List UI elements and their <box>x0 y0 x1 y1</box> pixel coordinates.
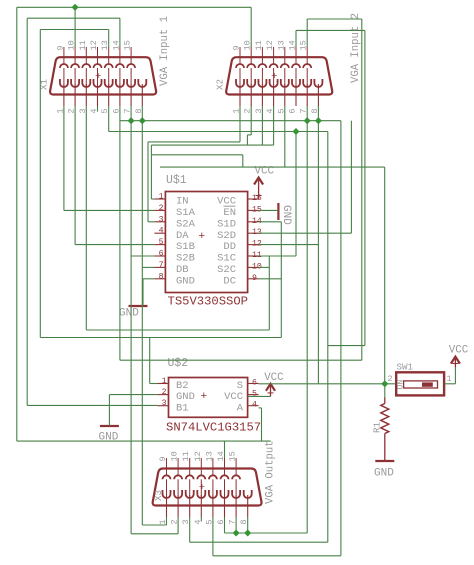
wire U$2 VCC wire <box>248 395 271 397</box>
svg-text:+: + <box>201 391 208 403</box>
X1 pin 1 <box>63 84 65 106</box>
U$1 EN overline <box>224 205 236 207</box>
wire X1 pin 2 vertical <box>74 106 76 245</box>
X2 pin 15 contact <box>303 64 311 68</box>
SW1 pin 2 wire <box>385 383 396 385</box>
wire X3 pin 6 drop <box>224 517 226 533</box>
wire net to U$1 pin 3 vertical <box>147 142 149 222</box>
U$1 pin 10 (S2C) <box>248 266 259 268</box>
svg-text:B1: B1 <box>176 402 189 414</box>
wire into U$1 pin 14 <box>259 221 282 223</box>
svg-text:+: + <box>199 482 205 494</box>
wire X2 top loop 2 horizontal <box>296 29 365 31</box>
svg-text:S2C: S2C <box>217 264 236 276</box>
X1 pin 3 contact <box>82 79 90 87</box>
wire X2 pin 4 drop <box>273 106 275 145</box>
X3 pin 8 contact <box>244 490 252 498</box>
svg-text:S1C: S1C <box>217 253 236 265</box>
svg-text:VGA Input 2: VGA Input 2 <box>350 13 362 83</box>
X3 pin 5 <box>212 495 214 517</box>
X2 pin 5 contact <box>281 79 289 87</box>
svg-text:TS5V330SSOP: TS5V330SSOP <box>168 295 248 309</box>
ground symbol below U$1 pin 8 <box>129 305 148 307</box>
svg-text:8: 8 <box>159 272 164 281</box>
svg-text:+: + <box>271 71 277 83</box>
X3 pin 10 contact <box>174 475 182 479</box>
U$1 pin 5 (S1B) <box>154 244 165 246</box>
X3 pin 1 contact <box>163 490 171 498</box>
wire into U$1 pin 1 <box>151 198 154 200</box>
wire X1 pin 3 vertical <box>85 106 87 330</box>
X2 pin 9 contact <box>236 64 244 68</box>
X1 pin 2 <box>74 84 76 106</box>
X3 pin 2 <box>177 495 179 517</box>
U$2 pin 1 (B2) <box>158 383 169 385</box>
svg-text:2: 2 <box>159 204 164 213</box>
wire X3 pin 7 drop <box>235 517 237 533</box>
X2 pin 13 contact <box>281 64 289 68</box>
U$2 pin 5 (VCC) <box>248 394 259 396</box>
wire X3 pin 5 drop <box>212 517 214 556</box>
wire mid horizontal y=360.2 <box>120 359 362 361</box>
X2 pin 6 contact <box>292 79 300 87</box>
X2 pin 11 <box>261 47 263 64</box>
svg-text:VGA Output: VGA Output <box>265 440 277 504</box>
wire bus L2 <box>109 131 328 133</box>
svg-text:10: 10 <box>170 451 180 461</box>
U$2 pin 4 (A) <box>248 405 259 407</box>
wire to U$2 pin 3 <box>27 404 157 406</box>
U$1 pin 8 (GND) <box>154 278 165 280</box>
wire U$1 pin 13 feed vertical <box>350 121 352 234</box>
X3 pin 9 <box>166 458 168 475</box>
svg-text:6: 6 <box>159 250 164 259</box>
X3 pin 14 <box>224 458 226 475</box>
svg-text:13: 13 <box>276 40 286 50</box>
X2 pin 8 <box>317 84 319 106</box>
X2 pin 4 <box>273 84 275 106</box>
wire into U$1 pin 13 <box>259 232 352 234</box>
ground symbol on U$2 pin 3 net <box>100 425 119 427</box>
X1 pin 10 contact <box>71 64 79 68</box>
X1 pin 14 <box>119 47 121 64</box>
X1 pin 10 <box>74 47 76 64</box>
wire X1 pin 4 stub <box>97 106 99 112</box>
wire VCC bus to SW1 <box>160 166 385 168</box>
junction X1 pin 7 on L1 <box>128 117 135 124</box>
U$2 pin 3 (B1) <box>158 405 169 407</box>
svg-text:11: 11 <box>78 40 88 50</box>
svg-text:15: 15 <box>123 40 133 50</box>
wire X3 pin 1 riser <box>166 517 168 525</box>
svg-text:IN: IN <box>176 196 189 208</box>
X2 pin 10 <box>250 47 252 64</box>
svg-text:12: 12 <box>89 40 99 50</box>
svg-text:1: 1 <box>162 377 167 386</box>
wire bus into U$1 pin 1 <box>151 144 273 146</box>
wire bottom bus to X3 pin 5 <box>213 555 341 557</box>
svg-text:2: 2 <box>162 388 167 397</box>
VCC symbol above U$1 pin 16 <box>258 179 260 200</box>
wire top bus 2 horizontal <box>27 17 120 19</box>
X3 pin 12 <box>200 458 202 475</box>
wire ground bus L1 <box>120 120 341 122</box>
wire X2 pin 7 vertical <box>306 106 308 533</box>
wire X1 pin 7 to X3 pin 2 <box>131 533 178 535</box>
X3 pin 3 contact <box>186 490 194 498</box>
svg-text:9: 9 <box>158 456 168 461</box>
X1 pin 4 <box>97 84 99 106</box>
wire X2 top loop 1 horizontal <box>307 18 362 20</box>
wire X2 pin 2 jog drop <box>246 135 248 145</box>
X2 pin 8 contact <box>314 79 322 87</box>
X3 pin 4 contact <box>197 490 205 498</box>
wire net horizontal y=330 <box>86 329 269 331</box>
svg-text:12: 12 <box>265 40 275 50</box>
wire jog vertical x=242.8 <box>242 155 244 167</box>
wire X1 pin 2 to U$1 pin 5 <box>75 244 154 246</box>
X2 pin 7 contact <box>303 79 311 87</box>
svg-text:6: 6 <box>288 109 298 114</box>
wire U$1 pin 11 feed horizontal <box>259 255 296 257</box>
svg-text:7: 7 <box>159 261 164 270</box>
wire X1 pin 10 riser <box>74 7 76 47</box>
wire X1 pin 6 drop <box>119 106 121 121</box>
X2 pin 7 <box>306 84 308 106</box>
VCC symbol at SW1 pin 1 <box>454 358 456 367</box>
X3 pin 9 contact <box>163 475 171 479</box>
X2 pin 12 contact <box>270 64 278 68</box>
wire net y=337.5 horizontal <box>40 337 281 339</box>
U$1 pin 1 (IN) <box>154 198 165 200</box>
X1 pin 9 <box>63 47 65 64</box>
wire X1 pin 8 vertical <box>141 106 143 525</box>
svg-text:DB: DB <box>176 264 189 276</box>
svg-text:+: + <box>95 71 101 83</box>
svg-text:SN74LVC1G3157: SN74LVC1G3157 <box>166 421 261 435</box>
X3 pin 2 contact <box>174 490 182 498</box>
wire U$2 pin 4 drop vertical <box>261 408 263 441</box>
switch SW1 body <box>396 372 444 395</box>
X3 pin 7 contact <box>232 490 240 498</box>
wire net to U$1 pin 3 horizontal <box>148 141 240 143</box>
svg-text:S1A: S1A <box>176 207 196 219</box>
svg-text:4: 4 <box>159 227 164 236</box>
X3 pin 5 contact <box>209 490 217 498</box>
svg-text:9: 9 <box>232 45 242 50</box>
junction X3 pin 7 on ground bus <box>233 529 240 536</box>
X2 pin 10 contact <box>247 64 255 68</box>
svg-text:EN: EN <box>223 207 236 219</box>
svg-text:S2B: S2B <box>176 253 195 265</box>
U$2 pin 2 (GND) <box>158 394 169 396</box>
wire X3 pin 3 drop <box>189 517 191 542</box>
svg-text:ON: ON <box>396 380 405 390</box>
wire X1 pin 7 vertical <box>130 106 132 534</box>
svg-text:DD: DD <box>223 241 236 253</box>
X3 pin 11 <box>189 458 191 475</box>
wire top bus 1 left drop <box>16 7 18 441</box>
X1 pin 8 <box>141 84 143 106</box>
svg-text:GND: GND <box>119 308 139 320</box>
wire into SW1 region horizontal <box>328 345 365 347</box>
X1 pin 5 <box>108 84 110 106</box>
X3 pin 8 <box>247 495 249 517</box>
svg-text:9: 9 <box>252 274 257 283</box>
U$1 pin 11 (S1C) <box>248 255 259 257</box>
ground symbol below R1 <box>375 460 394 462</box>
X2 pin 3 contact <box>258 79 266 87</box>
svg-text:GND: GND <box>176 275 195 287</box>
X1 pin 14 contact <box>116 64 124 68</box>
U$1 pin 7 (DB) <box>154 266 165 268</box>
op-amp U$1 box (analog switch TS5V330) <box>165 192 247 293</box>
svg-text:11: 11 <box>254 40 264 50</box>
wire into U$1 pin 7 <box>142 266 154 268</box>
wire X3 pin 14 riser <box>224 441 226 458</box>
svg-text:12: 12 <box>193 451 203 461</box>
svg-text:GND: GND <box>99 432 119 444</box>
wire into U$1 pin 3 <box>148 221 154 223</box>
X3 pin 4 <box>200 495 202 517</box>
SW1 pin 1 wire <box>445 383 456 385</box>
svg-text:5: 5 <box>159 238 164 247</box>
X2 pin 13 <box>284 47 286 64</box>
U$1 pin 14 (S1D) <box>248 221 259 223</box>
wire bottom bus to X3 pin 3 <box>190 541 328 543</box>
X1 pin 6 <box>119 84 121 106</box>
U$1 pin 13 (S2D) <box>248 232 259 234</box>
X1 pin 7 <box>130 84 132 106</box>
svg-text:S1D: S1D <box>217 218 236 230</box>
svg-text:U$1: U$1 <box>166 174 187 187</box>
U$1 pin 15 wire to ground <box>259 209 279 211</box>
svg-text:13: 13 <box>204 451 214 461</box>
wire X3 pin 8 drop <box>247 517 249 533</box>
wire X1 pin 14 riser <box>119 18 121 47</box>
svg-text:+: + <box>199 231 206 243</box>
wire X1 pin 8 to X3 pin 1 <box>142 524 166 526</box>
svg-text:VCC: VCC <box>449 345 469 357</box>
svg-text:3: 3 <box>159 215 164 224</box>
wire X3 pin 2 riser <box>177 517 179 534</box>
X3 pin 6 <box>224 495 226 517</box>
svg-text:VCC: VCC <box>264 372 284 384</box>
X2 pin 12 <box>273 47 275 64</box>
wire X2 pin 8 vertical <box>317 106 319 245</box>
wire U$2 S to SW1 <box>259 383 385 385</box>
X1 pin 11 <box>85 47 87 64</box>
junction SW1 node <box>381 380 388 387</box>
U$1 pin 6 (S2B) <box>154 255 165 257</box>
U$1 pin 4 (DA) <box>154 232 165 234</box>
X1 pin 13 <box>108 47 110 64</box>
wire X1 pin 6 long vertical <box>119 121 121 361</box>
X1 pin 8 contact <box>138 79 146 87</box>
wire U$1 pin 14 feed vertical <box>280 222 282 338</box>
wire U$1 pin 9 horizontal <box>259 278 282 280</box>
X2 pin 2 <box>250 84 252 106</box>
svg-text:15: 15 <box>228 451 238 461</box>
U$1 pin 2 (S1A) <box>154 209 165 211</box>
wire X3 pin 4 stub <box>200 517 202 522</box>
X3 pin 1 <box>166 495 168 517</box>
X1 pin 6 contact <box>116 79 124 87</box>
wire X2 pin 14 riser <box>295 30 297 47</box>
X1 pin 7 contact <box>127 79 135 87</box>
X2 pin 1 contact <box>236 79 244 87</box>
svg-text:2: 2 <box>387 374 392 384</box>
wire right drop x=364.9 <box>364 30 366 345</box>
svg-text:U$2: U$2 <box>168 357 189 370</box>
svg-text:S1B: S1B <box>176 241 195 253</box>
wire right drop x=361.8 <box>361 19 363 360</box>
svg-text:11: 11 <box>181 451 191 461</box>
X1 pin 13 contact <box>105 64 113 68</box>
wire U$2 pin 1 feed vertical <box>149 338 151 384</box>
svg-text:9: 9 <box>55 45 65 50</box>
wire X2 pin 10 riser <box>250 7 252 47</box>
X2 pin 2 contact <box>247 79 255 87</box>
X1 pin 9 contact <box>60 64 68 68</box>
X3 pin 15 <box>235 458 237 475</box>
VCC symbol at U$2 pin 5 <box>270 385 272 397</box>
junction X1 pin 10 on top bus <box>72 4 79 11</box>
svg-text:3: 3 <box>162 399 167 408</box>
svg-text:R1: R1 <box>372 421 383 433</box>
X2 pin 1 <box>239 84 241 106</box>
wire bottom ground bus <box>225 532 308 534</box>
wire U$1 pin 10-11 link vertical <box>268 256 270 330</box>
wire top bus 3 left drop <box>39 30 41 338</box>
X2 pin 14 contact <box>292 64 300 68</box>
svg-text:S2A: S2A <box>176 218 196 230</box>
wire X1 pin 1 vertical <box>63 106 65 210</box>
wire U$2 pin 4 feed <box>259 407 262 409</box>
X1 pin 2 contact <box>71 79 79 87</box>
X3 pin 15 contact <box>232 475 240 479</box>
R1 top wire <box>384 384 386 398</box>
wire X1 pin 5 drop <box>108 106 110 132</box>
wire X2 pin 8 lower vertical <box>317 245 319 384</box>
wire X2 pin 6 vertical <box>295 132 297 257</box>
X2 pin 11 contact <box>258 64 266 68</box>
svg-text:DA: DA <box>176 230 189 242</box>
wire to U$2 pin 2 <box>109 394 157 396</box>
X2 pin 5 <box>284 84 286 106</box>
U$1 pin 9 (DC) <box>248 278 259 280</box>
svg-text:1: 1 <box>447 374 452 384</box>
wire L1 drop to bottom <box>340 121 342 556</box>
svg-text:DC: DC <box>223 275 236 287</box>
connector X1 body <box>50 57 156 94</box>
X1 pin 12 contact <box>94 64 102 68</box>
X3 pin 6 contact <box>221 490 229 498</box>
connector X3 body <box>153 469 262 506</box>
U$1 pin 8 wire to ground <box>142 278 154 280</box>
X2 pin 4 contact <box>270 79 278 87</box>
svg-text:4: 4 <box>252 401 257 410</box>
wire X1 pin 13 riser <box>108 30 110 48</box>
svg-text:VGA Input 1: VGA Input 1 <box>159 16 171 86</box>
wire X2 pin 15 riser <box>306 19 308 47</box>
X1 pin 11 contact <box>82 64 90 68</box>
X1 pin 15 contact <box>127 64 135 68</box>
wire into U$2 pin 1 <box>150 383 158 385</box>
ground symbol at U$1 pin 15 (EN) <box>277 203 279 220</box>
svg-text:GND: GND <box>374 468 394 480</box>
U$2 pin 6 (S) <box>248 383 259 385</box>
X2 pin 14 <box>295 47 297 64</box>
svg-text:X2: X2 <box>215 79 226 90</box>
wire jog horizontal y=154.8 <box>151 154 242 156</box>
wire U$1 pin 12 feed <box>259 244 319 246</box>
X1 pin 15 <box>130 47 132 64</box>
wire X2 pin 2 jog <box>247 134 251 136</box>
junction X2 pin 6 on L2 <box>292 128 299 135</box>
svg-text:X3: X3 <box>153 490 164 501</box>
wire SW1 feed vertical <box>384 167 386 384</box>
resistor R1 <box>381 404 389 434</box>
wire X2 pin 5 drop <box>284 106 286 167</box>
X3 pin 13 contact <box>209 475 217 479</box>
X1 pin 3 <box>85 84 87 106</box>
wire top bus 1 horizontal <box>17 6 251 8</box>
wire X1 pin 1 to U$1 pin 2 <box>64 209 154 211</box>
U$1 pin 16 (VCC) <box>248 198 259 200</box>
X3 pin 12 contact <box>197 475 205 479</box>
X2 pin 15 <box>306 47 308 64</box>
X3 pin 14 contact <box>221 475 229 479</box>
X1 pin 12 <box>97 47 99 64</box>
U$1 pin 12 (DD) <box>248 244 259 246</box>
wire U$1 pin 10 horizontal <box>259 266 270 268</box>
svg-text:1: 1 <box>159 193 164 202</box>
X3 pin 11 contact <box>186 475 194 479</box>
X1 pin 4 contact <box>94 79 102 87</box>
wire X2 pin 3 drop <box>261 106 263 145</box>
svg-text:A: A <box>237 402 244 414</box>
wire X2 pin 1 drop <box>239 106 241 142</box>
junction X1 pin 8 on L1 <box>139 117 146 124</box>
X3 pin 10 <box>177 458 179 475</box>
X2 pin 9 <box>239 47 241 64</box>
svg-text:6: 6 <box>252 379 257 388</box>
wire L2 drop to bottom <box>327 132 329 543</box>
wire to X3 pin 14 horizontal <box>17 440 271 442</box>
U$1 pin 15 (EN) <box>248 209 259 211</box>
X3 pin 7 <box>235 495 237 517</box>
wire top bus 3 horizontal <box>40 29 108 31</box>
X1 pin 5 contact <box>105 79 113 87</box>
svg-text:SW1: SW1 <box>397 362 414 373</box>
svg-text:S2D: S2D <box>217 230 236 242</box>
junction X2 pin 8 on L1 <box>315 117 322 124</box>
X2 pin 6 <box>295 84 297 106</box>
X2 pin 3 <box>261 84 263 106</box>
U$1 pin 3 (S2A) <box>154 221 165 223</box>
X3 pin 13 <box>212 458 214 475</box>
X3 pin 3 <box>189 495 191 517</box>
junction X2 pin 7 on L1 <box>304 117 311 124</box>
wire U$1 pin 6 feed <box>131 255 154 257</box>
ground tap wire <box>108 395 110 426</box>
X1 pin 1 contact <box>60 79 68 87</box>
svg-text:5: 5 <box>252 390 257 399</box>
wire U$1 pin 1 feed vertical <box>150 145 152 199</box>
wire top bus 2 left drop <box>26 18 28 405</box>
connector X2 body <box>226 57 332 94</box>
